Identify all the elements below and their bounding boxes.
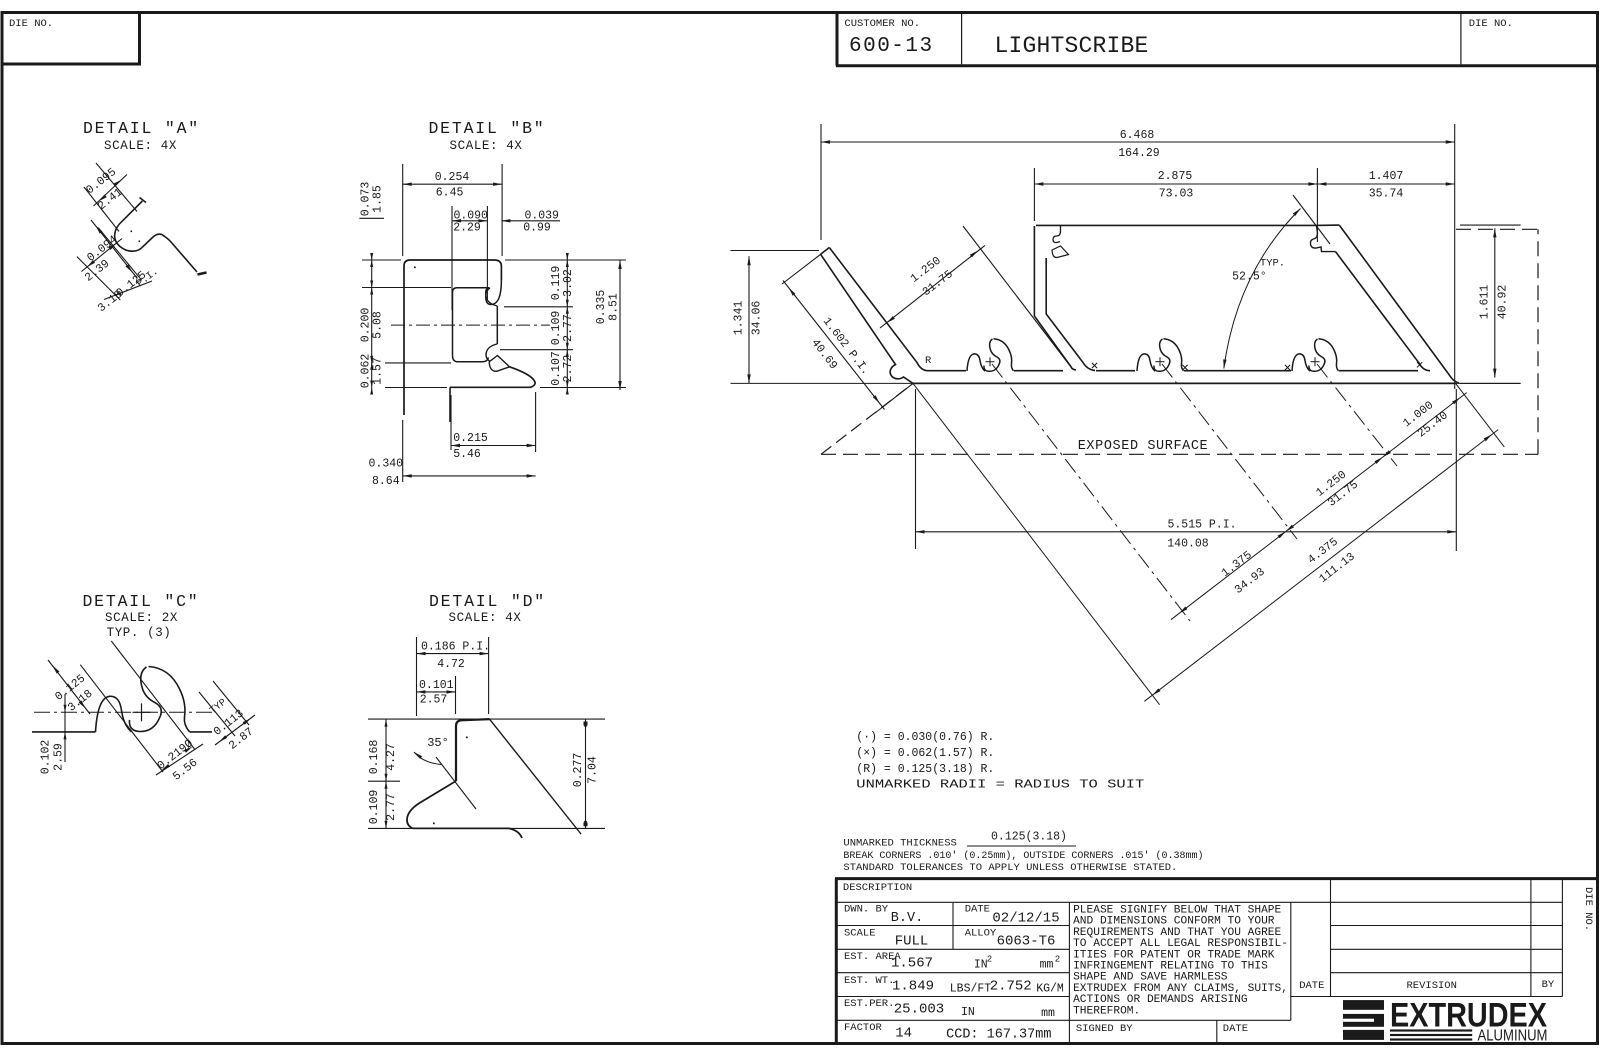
boss 3 axis dashed <box>1317 364 1397 466</box>
main right hook <box>1310 225 1335 251</box>
svg-text:DIE NO.: DIE NO. <box>1469 18 1513 30</box>
main right arm top corner <box>1316 224 1339 226</box>
detail B ext lines right <box>504 306 573 308</box>
detail C boss outer curl <box>149 667 190 732</box>
svg-text:IN: IN <box>961 1006 975 1019</box>
svg-text:5.08: 5.08 <box>372 311 385 339</box>
svg-text:DETAIL ″A″: DETAIL ″A″ <box>83 119 200 138</box>
ext line 1.611 top <box>1460 224 1521 226</box>
svg-text:34.06: 34.06 <box>751 301 764 336</box>
boss 2 axis dashed <box>1162 364 1297 539</box>
detail B centerline <box>391 324 550 326</box>
svg-text:ITIES FOR PATENT OR TRADE MARK: ITIES FOR PATENT OR TRADE MARK <box>1073 949 1275 961</box>
ext line 1.602 top perp <box>782 254 821 284</box>
svg-text:6063-T6: 6063-T6 <box>997 934 1056 950</box>
detail B pointed tab <box>489 356 509 372</box>
svg-text:0.99: 0.99 <box>523 222 551 235</box>
detail B wall inner edge below foot <box>449 387 451 422</box>
customer header box <box>836 13 839 66</box>
detail A ext line upper-left <box>84 187 119 232</box>
svg-text:AND DIMENSIONS CONFORM TO YOUR: AND DIMENSIONS CONFORM TO YOUR <box>1073 916 1275 928</box>
ext line right corner vertical <box>1454 124 1456 389</box>
detail B dim 0.215/5.46 <box>450 395 452 450</box>
svg-text:52.5°: 52.5° <box>1232 271 1267 284</box>
svg-text:DIE NO.: DIE NO. <box>9 18 53 30</box>
detail B top bar underside and cavity <box>453 288 490 362</box>
corner axis line right <box>1456 383 1505 447</box>
extrudex logo icon <box>1343 1000 1384 1010</box>
svg-text:REVISION: REVISION <box>1406 980 1456 992</box>
main wall right edge upper <box>1045 258 1047 262</box>
ext line 6.468 left <box>820 124 822 240</box>
svg-text:35.74: 35.74 <box>1369 188 1404 201</box>
boss left bump curl <box>967 354 985 371</box>
detail C tangent ext line 2 <box>111 641 194 749</box>
detail B ext lines left <box>362 259 401 261</box>
svg-text:2.29: 2.29 <box>453 222 481 235</box>
svg-text:0.254: 0.254 <box>435 171 470 184</box>
svg-text:mm: mm <box>1040 959 1054 972</box>
detail A ext line upper-right <box>96 163 137 212</box>
detail B radius dot <box>414 267 416 269</box>
svg-text:EXTRUDEX FROM ANY CLAIMS, SUIT: EXTRUDEX FROM ANY CLAIMS, SUITS, <box>1073 983 1288 995</box>
chain dim line 1.375-1.250-1.000 <box>1171 393 1467 620</box>
boss outer curl <box>994 339 1014 371</box>
svg-text:DETAIL ″C″: DETAIL ″C″ <box>82 592 199 611</box>
svg-text:2: 2 <box>987 955 992 965</box>
svg-text:CUSTOMER NO.: CUSTOMER NO. <box>844 18 920 30</box>
detail C base surface left <box>32 731 96 733</box>
title block signedby row line <box>1069 1019 1290 1021</box>
svg-text:35°: 35° <box>427 736 449 750</box>
svg-text:STANDARD TOLERANCES TO APPLY U: STANDARD TOLERANCES TO APPLY UNLESS OTHE… <box>843 862 1177 874</box>
svg-text:2.875: 2.875 <box>1158 170 1193 183</box>
detail C dim 0.219/5.56 <box>156 744 203 775</box>
svg-text:1.85: 1.85 <box>372 185 385 213</box>
title block row line 5 left <box>836 996 1069 998</box>
detail B left chain line <box>371 255 373 392</box>
title block revision header bottom <box>1291 996 1563 998</box>
die no box top-left <box>2 13 140 65</box>
detail C boss left bump <box>96 696 132 732</box>
detail B J-hook <box>486 280 502 305</box>
boss center cross <box>986 361 995 363</box>
dim 5.515 PI/140.08 <box>916 531 1457 533</box>
main wall channel cap <box>1053 225 1061 242</box>
main base top edge segments <box>928 370 966 372</box>
boss outer curl <box>1164 339 1184 371</box>
detail B cavity right wall <box>496 306 498 344</box>
main wall channel tab <box>1052 246 1069 258</box>
svg-text:FULL: FULL <box>895 934 929 950</box>
detail C boss inner S curl <box>129 667 161 732</box>
svg-text:1.849: 1.849 <box>892 979 934 995</box>
title block legal left divider <box>1068 902 1070 1043</box>
detail D right dim 0.277/7.04 <box>585 719 587 828</box>
title block row line 3 left <box>836 948 1069 950</box>
main right arm outer edge <box>1339 225 1459 383</box>
main right arm inner edge <box>1336 252 1431 371</box>
detail D arm outer diagonal <box>490 719 582 834</box>
main middle wall right edge <box>1046 258 1095 371</box>
boss left bump curl <box>1292 354 1310 371</box>
svg-text:1.407: 1.407 <box>1369 170 1404 183</box>
boss 1 axis dashed <box>992 364 1190 621</box>
svg-text:0.277: 0.277 <box>572 753 585 788</box>
svg-text:140.08: 140.08 <box>1167 538 1209 551</box>
svg-text:DWN. BY: DWN. BY <box>844 904 889 916</box>
svg-text:UNMARKED RADII = RADIUS TO SUI: UNMARKED RADII = RADIUS TO SUIT <box>856 779 1144 792</box>
ext line 1.602 bottom perp <box>875 383 913 413</box>
die no divider right <box>1460 14 1462 64</box>
svg-text:FACTOR: FACTOR <box>844 1022 883 1034</box>
svg-text:SCALE: 2X: SCALE: 2X <box>105 611 178 625</box>
svg-text:25.003: 25.003 <box>894 1002 944 1018</box>
detail D dim 0.101/2.57 <box>455 676 457 714</box>
svg-text:(R) = 0.125(3.18) R.: (R) = 0.125(3.18) R. <box>856 763 994 776</box>
boss center cross <box>1156 361 1165 363</box>
svg-text:mm: mm <box>1041 1007 1055 1020</box>
detail D left chain <box>385 719 387 828</box>
svg-text:0.215: 0.215 <box>453 432 488 445</box>
boss inner S curl <box>1154 339 1170 371</box>
detail C dim TYP 0.113/2.87 <box>215 715 255 745</box>
detail C centerline <box>34 711 214 713</box>
detail C base surface right <box>190 731 213 733</box>
svg-text:THEREFROM.: THEREFROM. <box>1073 1005 1140 1017</box>
svg-text:BREAK CORNERS .010' (0.25mm),: BREAK CORNERS .010' (0.25mm), OUTSIDE CO… <box>843 850 1203 862</box>
svg-text:DATE: DATE <box>965 904 990 916</box>
detail B dim 0.335/8.51 <box>619 260 621 390</box>
main left arm end cap <box>821 248 830 255</box>
dim 4.375/111.13 line <box>1144 430 1498 702</box>
svg-text:2: 2 <box>1055 955 1060 965</box>
svg-text:3.02: 3.02 <box>562 269 575 297</box>
svg-text:40.92: 40.92 <box>1497 285 1510 320</box>
boss left bump curl <box>1137 354 1155 371</box>
title block legal right divider <box>1290 902 1292 1020</box>
svg-text:CCD: 167.37mm: CCD: 167.37mm <box>946 1028 1051 1043</box>
detail D dim 0.186 PI/4.72 <box>416 637 418 716</box>
detail B dim 0.039/0.99 <box>501 220 560 222</box>
svg-text:SCALE: SCALE <box>844 927 876 939</box>
ext line 2.875 left <box>1033 168 1035 221</box>
title block signedby date divider <box>1216 1020 1218 1043</box>
title block revision row lines <box>1331 925 1563 927</box>
detail B foot <box>450 367 535 388</box>
svg-text:0.186 P.I.: 0.186 P.I. <box>421 641 490 654</box>
svg-text:6.468: 6.468 <box>1120 129 1155 142</box>
svg-text:2.77: 2.77 <box>562 314 575 342</box>
title block divider dwnby-date <box>952 902 954 949</box>
title block row line 2 left <box>836 925 1069 927</box>
svg-text:(·) = 0.030(0.76) R.: (·) = 0.030(0.76) R. <box>856 731 994 744</box>
main left arm outer edge <box>821 254 913 383</box>
dim 1.341/34.06 <box>748 256 750 383</box>
detail D base bottom surface line <box>368 827 605 829</box>
detail A dim 0.094/2.39 <box>82 239 123 272</box>
svg-text:TYP. (3): TYP. (3) <box>107 626 172 640</box>
svg-text:BY: BY <box>1542 979 1555 991</box>
svg-text:DETAIL ″D″: DETAIL ″D″ <box>429 592 546 611</box>
detail A profile end cap <box>198 273 207 275</box>
detail D base top surface line <box>368 718 605 720</box>
svg-text:LIGHTSCRIBE: LIGHTSCRIBE <box>995 33 1149 59</box>
dim 1.611/40.92 <box>1494 228 1496 377</box>
dim 1.250/31.75 upper <box>880 245 985 328</box>
svg-text:DATE: DATE <box>1223 1023 1248 1035</box>
title block row line 4 left <box>836 972 1069 974</box>
svg-text:PLEASE SIGNIFY BELOW THAT SHAP: PLEASE SIGNIFY BELOW THAT SHAPE <box>1073 905 1281 917</box>
ext line 2.875/1.407 middle <box>1316 168 1318 242</box>
detail D wedge profile <box>456 720 461 781</box>
svg-text:SCALE: 4X: SCALE: 4X <box>104 139 177 153</box>
detail A ext line lower mid <box>98 228 141 281</box>
svg-text:SIGNED BY: SIGNED BY <box>1076 1023 1133 1035</box>
svg-text:0.340: 0.340 <box>369 458 404 471</box>
svg-text:5.515 P.I.: 5.515 P.I. <box>1167 519 1236 532</box>
detail D wedge bottom <box>413 828 522 838</box>
svg-text:KG/M: KG/M <box>1036 983 1064 996</box>
detail B dim 0.254/6.45 <box>402 164 404 256</box>
svg-text:TO ACCEPT ALL LEGAL RESPONSIBI: TO ACCEPT ALL LEGAL RESPONSIBIL- <box>1073 938 1288 950</box>
angular dim 52.5 arc <box>1224 209 1301 369</box>
svg-text:02/12/15: 02/12/15 <box>992 911 1059 927</box>
svg-text:DETAIL ″B″: DETAIL ″B″ <box>428 119 545 138</box>
title block outer thick border <box>835 877 1598 880</box>
detail B profile outer top and right edge <box>404 260 501 280</box>
corner axis line left <box>913 383 1160 704</box>
svg-text:5.46: 5.46 <box>453 448 481 461</box>
svg-text:EXPOSED SURFACE: EXPOSED SURFACE <box>1078 439 1209 454</box>
ext line 1.341 top <box>731 250 820 252</box>
svg-text:0.125(3.18): 0.125(3.18) <box>991 831 1067 844</box>
detail C dim 0.125/3.18 <box>48 660 90 714</box>
svg-text:EST. WT.: EST. WT. <box>844 975 894 987</box>
ext line 5.515 right vertical <box>1455 389 1457 551</box>
svg-text:TYP.: TYP. <box>1260 258 1285 270</box>
detail A fraction line 3.18 <box>104 281 152 300</box>
detail A ext line lower-left <box>77 257 120 300</box>
detail A radius dots <box>131 231 133 233</box>
boss outer curl <box>1319 339 1339 371</box>
dim 2.875/73.03 <box>1034 183 1317 185</box>
svg-text:ACTIONS OR DEMANDS ARISING: ACTIONS OR DEMANDS ARISING <box>1073 994 1248 1006</box>
svg-text:8.64: 8.64 <box>372 475 400 488</box>
svg-text:DIE NO.: DIE NO. <box>1582 887 1594 931</box>
main top plate line <box>1036 224 1316 226</box>
svg-text:B.V.: B.V. <box>891 911 923 926</box>
main base bottom edge <box>731 382 1521 384</box>
dim 1.602 PI/40.69 <box>783 281 885 410</box>
svg-text:LBS/FT: LBS/FT <box>950 982 992 995</box>
boss center cross <box>1311 361 1320 363</box>
detail B dim 0.340/8.64 <box>402 420 404 482</box>
extrudex logo lines <box>1390 1029 1472 1031</box>
dim 6.468/164.29 <box>821 141 1455 143</box>
ext line gap dim E1 <box>963 226 1071 367</box>
svg-text:164.29: 164.29 <box>1118 147 1160 160</box>
svg-text:2.57: 2.57 <box>420 694 448 707</box>
detail C center cross <box>133 711 151 713</box>
boss inner S curl <box>984 339 1000 371</box>
detail C dim 0.102/2.59 <box>64 694 66 762</box>
title block row line 6 left <box>836 1019 1069 1021</box>
detail A dim 0.095/2.41 <box>94 175 128 207</box>
svg-text:8.51: 8.51 <box>608 293 621 321</box>
svg-text:1.57: 1.57 <box>372 357 385 385</box>
detail B hook tip bump <box>486 288 498 306</box>
svg-text:SCALE: 4X: SCALE: 4X <box>449 611 522 625</box>
detail A dim 0.125 P.I./3.18 line <box>91 220 137 278</box>
main x marks <box>1092 363 1097 368</box>
svg-text:14: 14 <box>895 1025 912 1041</box>
detail C tangent ext line 1 <box>80 665 163 772</box>
ext line 1.611 bottom <box>1460 382 1521 384</box>
svg-text:73.03: 73.03 <box>1159 188 1194 201</box>
main middle wall left edge <box>1034 226 1076 370</box>
svg-text:1.341: 1.341 <box>733 301 746 336</box>
detail A profile hook curve <box>140 198 147 203</box>
svg-text:2.77: 2.77 <box>385 793 398 821</box>
svg-text:6.45: 6.45 <box>436 187 464 200</box>
svg-text:DESCRIPTION: DESCRIPTION <box>843 882 912 894</box>
svg-text:SHAPE AND SAVE HARMLESS: SHAPE AND SAVE HARMLESS <box>1073 972 1228 984</box>
svg-text:4.72: 4.72 <box>437 658 465 671</box>
title block revision left divider <box>1330 879 1332 997</box>
svg-text:1.567: 1.567 <box>891 956 933 972</box>
svg-text:0.102: 0.102 <box>40 740 53 775</box>
svg-text:7.04: 7.04 <box>587 756 600 784</box>
detail D wedge chamfer <box>407 781 456 828</box>
svg-text:R: R <box>925 355 932 367</box>
svg-text:2.752: 2.752 <box>990 979 1032 995</box>
title block row line 1 <box>836 901 1562 903</box>
exposed surface dashed outline <box>821 453 1538 455</box>
svg-text:SCALE: 4X: SCALE: 4X <box>450 139 523 153</box>
main left arm inner edge <box>829 248 928 371</box>
svg-text:ALLOY: ALLOY <box>965 927 997 939</box>
title block by divider <box>1530 879 1532 997</box>
svg-text:REQUIREMENTS AND THAT YOU AGRE: REQUIREMENTS AND THAT YOU AGREE <box>1073 927 1281 939</box>
ext line 5.515 left vertical <box>915 389 917 549</box>
svg-text:0.101: 0.101 <box>419 679 454 692</box>
customer no divider <box>961 14 963 64</box>
detail B lower bump <box>486 344 497 361</box>
detail D radius dots <box>466 737 468 739</box>
svg-text:0.168: 0.168 <box>368 740 381 775</box>
svg-text:0.335: 0.335 <box>595 290 608 325</box>
svg-text:INFRINGEMENT RELATING TO THIS: INFRINGEMENT RELATING TO THIS <box>1073 961 1268 973</box>
svg-text:UNMARKED THICKNESS: UNMARKED THICKNESS <box>843 838 956 850</box>
boss inner S curl <box>1309 339 1325 371</box>
svg-text:(×) = 0.062(1.57) R.: (×) = 0.062(1.57) R. <box>856 747 994 760</box>
detail B dim 0.090/2.29 <box>451 206 453 310</box>
svg-text:IN: IN <box>974 959 988 972</box>
svg-text:2.59: 2.59 <box>53 743 66 771</box>
svg-text:600-13: 600-13 <box>849 35 934 58</box>
dim 1.407/35.74 <box>1317 183 1454 185</box>
angular dim 52.5 ext line <box>1293 195 1330 244</box>
detail C ext lines typ <box>199 692 235 736</box>
svg-text:0.109: 0.109 <box>368 790 381 825</box>
detail B right chain line <box>566 255 568 392</box>
svg-text:EST.PER.: EST.PER. <box>844 998 894 1010</box>
title block die col divider <box>1561 879 1563 997</box>
detail B left wall outer <box>403 266 405 415</box>
svg-text:ALUMINUM: ALUMINUM <box>1478 1028 1548 1045</box>
svg-text:DATE: DATE <box>1299 980 1324 992</box>
svg-text:2.72: 2.72 <box>562 355 575 383</box>
svg-text:1.611: 1.611 <box>1479 285 1492 320</box>
svg-text:4.27: 4.27 <box>385 743 398 771</box>
